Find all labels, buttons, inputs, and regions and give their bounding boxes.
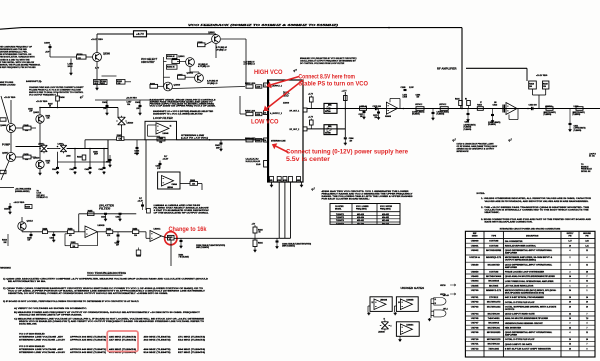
svg-text:418-432: 418-432 bbox=[382, 213, 389, 216]
svg-text:2. THE +10.2V SERIES PASS TRAN: 2. THE +10.2V SERIES PASS TRANSISTOR Q39… bbox=[481, 206, 590, 209]
op-amp LM301A bbox=[150, 231, 162, 242]
svg-text:A_SUPPLY_2: A_SUPPLY_2 bbox=[270, 112, 282, 115]
capacitor C3422 bbox=[30, 234, 33, 236]
svg-text:Stable PS to turn on VCO: Stable PS to turn on VCO bbox=[299, 82, 369, 88]
wire loop net bottom rail bbox=[58, 161, 109, 163]
resistor R3390 bbox=[77, 55, 87, 59]
svg-text:502-515: 502-515 bbox=[382, 223, 389, 225]
resistor R3434 bbox=[56, 96, 60, 101]
pennant flag bandshift bbox=[80, 96, 83, 98]
svg-text:34: 34 bbox=[569, 289, 571, 292]
svg-text:R3439: R3439 bbox=[24, 153, 29, 156]
diode array LM4020 bbox=[118, 117, 126, 125]
svg-text:AMPLIFIER: AMPLIFIER bbox=[505, 333, 518, 336]
svg-text:RTC/BLNT C2: RTC/BLNT C2 bbox=[37, 197, 48, 199]
resistor R3464 bbox=[253, 240, 257, 247]
svg-text:471 MHZ (TLE84T4): 471 MHZ (TLE84T4) bbox=[178, 336, 206, 339]
resistor R3309 bbox=[310, 120, 314, 125]
wire A_SUPPLY_2 feed bbox=[240, 113, 246, 115]
svg-text:11: 11 bbox=[586, 264, 588, 266]
filter FL3101 bbox=[543, 81, 549, 89]
svg-text:RF_OUT_2: RF_OUT_2 bbox=[290, 129, 300, 131]
svg-text:27: 27 bbox=[480, 102, 482, 104]
resistor R3462 bbox=[117, 137, 124, 141]
resistor R3452 circled bbox=[168, 235, 175, 240]
wire opamp2 output bbox=[180, 183, 190, 185]
svg-text:2,16: 2,16 bbox=[585, 241, 588, 243]
svg-text:OF THE MODULATED RF OUTPUT SIG: OF THE MODULATED RF OUTPUT SIGNAL bbox=[154, 213, 210, 215]
pennant flag module bbox=[312, 188, 315, 190]
capacitor C3425 bbox=[109, 159, 112, 161]
svg-text:TLE84T1: TLE84T1 bbox=[336, 213, 344, 216]
svg-text:FOR EACH CLUSTER BOARD MODEL:: FOR EACH CLUSTER BOARD MODEL: bbox=[322, 197, 370, 200]
svg-text:+10.2V REG: +10.2V REG bbox=[36, 101, 48, 103]
svg-text:OUTPUT IMPEDANCE (MMIC): OUTPUT IMPEDANCE (MMIC) bbox=[505, 259, 537, 262]
pins module bottom bbox=[270, 177, 274, 183]
annotation circle around R3452 bbox=[165, 232, 177, 245]
svg-text:B) MEASURE POWER AND FREQUENC: B) MEASURE POWER AND FREQUENCY AT OUTPUT… bbox=[14, 311, 201, 314]
unused op-amp LM3046B box bbox=[396, 297, 418, 312]
wire cap top rail bbox=[95, 99, 150, 101]
svg-text:HEX INVERTER: HEX INVERTER bbox=[505, 327, 522, 329]
filter FL3100 bbox=[529, 81, 537, 89]
svg-text:MC33184: MC33184 bbox=[488, 280, 499, 283]
svg-text:REFERENCE AND THE 2ND: REFERENCE AND THE 2ND bbox=[0, 48, 27, 51]
svg-text:MC74HC273: MC74HC273 bbox=[487, 338, 501, 341]
svg-text:462 MHZ (TLE84T3): 462 MHZ (TLE84T3) bbox=[144, 339, 172, 342]
transistor Q3363 bbox=[212, 35, 221, 44]
resistor R3365 bbox=[172, 60, 180, 64]
capacitor C3432 bbox=[103, 167, 106, 169]
svg-text:U3701: U3701 bbox=[471, 297, 479, 299]
wire loop filter drop bbox=[145, 140, 147, 210]
capacitor C3431 bbox=[89, 167, 92, 169]
wire supply to module pin bbox=[172, 87, 245, 89]
unused gate U3711C bbox=[434, 298, 446, 306]
svg-text:FREQ (MHZ): FREQ (MHZ) bbox=[380, 208, 391, 210]
svg-text:4: 4 bbox=[570, 263, 571, 266]
svg-text:U3708: U3708 bbox=[471, 327, 479, 329]
wire Q3390 collector bbox=[96, 41, 98, 53]
svg-text:C3390: C3390 bbox=[44, 43, 51, 45]
svg-text:QUAD ANALOG MULTIPLEXER/DEMULT: QUAD ANALOG MULTIPLEXER/DEMULTIPLEXER bbox=[505, 275, 556, 278]
svg-text:10: 10 bbox=[586, 302, 588, 304]
svg-text:4: 4 bbox=[570, 331, 571, 334]
op-amp LM3046 loop filter bbox=[156, 123, 169, 134]
svg-text:435-452: 435-452 bbox=[357, 219, 364, 222]
svg-text:C36: C36 bbox=[192, 184, 195, 186]
svg-text:C36: C36 bbox=[25, 159, 28, 161]
svg-text:U3711: U3711 bbox=[471, 344, 479, 346]
svg-text:E REF FREQUENCY; PIN 20 PULSE: E REF FREQUENCY; PIN 20 PULSES bbox=[0, 67, 36, 69]
svg-text:(MM): (MM) bbox=[328, 105, 332, 107]
wire modulation rail bbox=[162, 236, 168, 238]
svg-text:LOOP FILTER: LOOP FILTER bbox=[153, 116, 173, 120]
transistor Q3362 bbox=[195, 74, 204, 83]
svg-text:VCO TROUBLESHOOTING: VCO TROUBLESHOOTING bbox=[87, 271, 127, 275]
resistor stub left edge 2 bbox=[0, 170, 6, 173]
capacitor C3448 bbox=[159, 163, 162, 165]
svg-text:BANDSHIFT HI = VCO 1 (LOWER) S: BANDSHIFT HI = VCO 1 (LOWER) SELECTED bbox=[153, 113, 203, 115]
wire filter drops bbox=[532, 89, 534, 95]
svg-text:12: 12 bbox=[372, 302, 374, 304]
capacitor C3390 bbox=[49, 46, 52, 48]
svg-text:10,11,12,13,14,15: 10,11,12,13,14,15 bbox=[246, 160, 260, 163]
svg-text:4.7V (BE) LO: 4.7V (BE) LO bbox=[197, 65, 210, 68]
annotation red box steering data bbox=[107, 331, 138, 352]
svg-text:7MHZ/5MHZ: 7MHZ/5MHZ bbox=[0, 268, 12, 270]
svg-text:IMPEDANCE: IMPEDANCE bbox=[457, 151, 470, 153]
svg-text:U3703: U3703 bbox=[471, 306, 479, 308]
svg-text:L3276 12: L3276 12 bbox=[439, 104, 446, 106]
svg-text:APPROX 443 MHZ (TLE84T1): APPROX 443 MHZ (TLE84T1) bbox=[70, 351, 106, 354]
svg-text:74HC4051: 74HC4051 bbox=[488, 317, 500, 320]
svg-text:2: 2 bbox=[570, 272, 571, 274]
svg-text:SENSITIVE; DO NOT PROBE). POWE: SENSITIVE; DO NOT PROBE). POWER AT CR330… bbox=[8, 292, 169, 295]
resistor R3458 bbox=[133, 230, 139, 234]
svg-text:11,48: 11,48 bbox=[256, 163, 260, 166]
wire steering line bbox=[85, 139, 117, 141]
svg-text:COLLECTOR IS INTERNALLY CONNEC: COLLECTOR IS INTERNALLY CONNECTED TO THE… bbox=[485, 209, 590, 212]
svg-text:8 BIT SLPT-IN S-OUT SHIFT REGI: 8 BIT SLPT-IN S-OUT SHIFT REGISTER bbox=[505, 348, 552, 350]
svg-text:LOW VCO: LOW VCO bbox=[251, 119, 279, 126]
svg-text:1,17: 1,17 bbox=[568, 241, 571, 243]
svg-text:450 MHZ (TLE84T3): 450 MHZ (TLE84T3) bbox=[144, 336, 172, 339]
svg-text:APPROX 303 MHZ (TLE84T3): APPROX 303 MHZ (TLE84T3) bbox=[70, 336, 106, 339]
svg-text:14: 14 bbox=[569, 313, 571, 316]
ground unused 3 bbox=[399, 336, 401, 338]
capacitor C3271 bbox=[363, 111, 366, 113]
svg-text:434-452: 434-452 bbox=[382, 216, 389, 219]
svg-text:DC CONTROL VOLTAGE FROM LOOP F: DC CONTROL VOLTAGE FROM LOOP FILTER bbox=[300, 63, 345, 65]
svg-text:D/A CONVERTER: D/A CONVERTER bbox=[505, 240, 524, 243]
capacitor C3449 bbox=[52, 234, 55, 236]
svg-text:OV (BE) LO: OV (BE) LO bbox=[207, 83, 218, 85]
svg-text:7: 7 bbox=[587, 276, 588, 278]
svg-text:7: 7 bbox=[587, 314, 588, 316]
svg-text:4: 4 bbox=[587, 322, 588, 325]
svg-text:PUMP: PUMP bbox=[2, 143, 10, 147]
hybrid module 43300 outline bbox=[268, 80, 303, 182]
svg-text:BANDSHIFT (0):: BANDSHIFT (0): bbox=[26, 81, 42, 83]
MMIC U3720A bbox=[324, 103, 337, 113]
resistor R3468 bbox=[190, 182, 198, 186]
svg-text:R3440: R3440 bbox=[24, 124, 29, 127]
svg-text:C3271: C3271 bbox=[359, 114, 364, 116]
capacitor C3391 bbox=[94, 80, 101, 85]
wire stub left bbox=[0, 187, 14, 189]
capacitor C3263 bbox=[276, 240, 279, 242]
svg-text:+10.2V REG: +10.2V REG bbox=[536, 75, 548, 77]
svg-text:Q3412: Q3412 bbox=[27, 220, 34, 223]
resistor R3450 bbox=[68, 230, 75, 234]
op-amp LM3046 second box bbox=[158, 172, 180, 189]
capacitor C3428 bbox=[117, 234, 120, 236]
svg-text:2: 2 bbox=[570, 323, 571, 325]
svg-text:PHASE LOCKED LOOP SYNTHESIZER: PHASE LOCKED LOOP SYNTHESIZER bbox=[505, 271, 545, 274]
svg-text:LM301A: LM301A bbox=[154, 228, 162, 231]
svg-text:C3111: C3111 bbox=[574, 126, 579, 128]
svg-text:C36: C36 bbox=[25, 130, 28, 132]
wire rail 107.5 bbox=[40, 107, 118, 109]
svg-text:C36: C36 bbox=[47, 163, 50, 165]
svg-text:2: 2 bbox=[570, 257, 571, 259]
resistor R3459 bbox=[136, 250, 141, 255]
svg-text:+4.7V: +4.7V bbox=[308, 93, 314, 96]
svg-text:11: 11 bbox=[586, 281, 588, 283]
svg-text:.01UF: .01UF bbox=[94, 83, 98, 85]
svg-text:RF_OUT_1: RF_OUT_1 bbox=[290, 110, 300, 112]
svg-text:C3391: C3391 bbox=[94, 81, 99, 83]
svg-text:.1UF: .1UF bbox=[103, 108, 106, 110]
svg-text:3) IF BOARD IS NOT LOCKED, PE: 3) IF BOARD IS NOT LOCKED, PERFORM FOLLO… bbox=[3, 300, 139, 303]
transistor Q3361 bbox=[186, 58, 195, 67]
capacitor C3453 bbox=[220, 142, 223, 144]
svg-text:LM4038: LM4038 bbox=[378, 331, 385, 334]
ground module right bbox=[301, 182, 303, 184]
svg-text:16: 16 bbox=[569, 318, 571, 320]
svg-text:U3710: U3710 bbox=[471, 339, 479, 341]
feedback loop LM3046 bbox=[147, 125, 149, 136]
svg-text:C36: C36 bbox=[47, 118, 50, 120]
svg-text:U3940: U3940 bbox=[471, 263, 479, 266]
resistor R3442 bbox=[82, 155, 86, 160]
resistor R3367 bbox=[178, 75, 186, 79]
svg-text:VALUES ARE IN PICOFARADS, AND: VALUES ARE IN PICOFARADS, AND INDUCTOR V… bbox=[485, 200, 590, 203]
svg-text:514 MHZ (TLE84T3): 514 MHZ (TLE84T3) bbox=[144, 351, 172, 354]
svg-text:3. EDGE CONNECTORS P101 AND P1: 3. EDGE CONNECTORS P101 AND P102 ARE PAR… bbox=[481, 218, 592, 221]
svg-text:AT J31: AT J31 bbox=[589, 155, 595, 158]
wire R3452 drop bbox=[170, 240, 172, 266]
svg-text:DETAIL SH: DETAIL SH bbox=[581, 170, 591, 173]
resistor R3360 bbox=[167, 55, 178, 59]
svg-text:Q3361: Q3361 bbox=[178, 56, 185, 58]
svg-text:+MT+1: +MT+1 bbox=[443, 308, 448, 310]
capacitor C3427 bbox=[74, 167, 77, 169]
pin 23 A_SUPPLY_2 bbox=[264, 111, 268, 115]
svg-text:TLE84T2: TLE84T2 bbox=[336, 216, 344, 219]
resistor R3463 bbox=[253, 227, 257, 233]
svg-text:R3138: R3138 bbox=[529, 84, 534, 86]
svg-text:Q3408: Q3408 bbox=[0, 124, 7, 127]
svg-text:514 MHZ (TLE84T4): 514 MHZ (TLE84T4) bbox=[178, 339, 206, 342]
svg-text:OCTAL D-TYPE FLIP-FLOP: OCTAL D-TYPE FLIP-FLOP bbox=[505, 301, 536, 304]
power +8.7V box bbox=[134, 31, 147, 37]
capacitor C3435 bbox=[136, 147, 139, 149]
svg-text:VCO FEEDBACK (303MHZ TO 431MHZ: VCO FEEDBACK (303MHZ TO 431MHZ & 438MHZ … bbox=[188, 24, 339, 27]
svg-text:MOD1: MOD1 bbox=[277, 180, 281, 182]
wire splatter input rail bbox=[22, 231, 43, 233]
capacitor C3438 bbox=[139, 105, 142, 107]
svg-text:R3367: R3367 bbox=[178, 74, 183, 76]
svg-text:C36: C36 bbox=[119, 139, 122, 141]
resistor R3456 bbox=[106, 230, 113, 234]
svg-text:FILTER: FILTER bbox=[99, 207, 110, 211]
wire Q3390 base rail bbox=[50, 56, 77, 58]
svg-text:HEATSINK.: HEATSINK. bbox=[485, 211, 501, 214]
resistor R3449 bbox=[43, 230, 48, 234]
svg-text:BE APPROXIMATELY 80 MA.: BE APPROXIMATELY 80 MA. bbox=[8, 280, 47, 283]
wire Q3363 to supply bbox=[215, 43, 217, 58]
svg-text:F THE DIGITAL. WITH VCO BELOW: F THE DIGITAL. WITH VCO BELOW bbox=[0, 61, 34, 64]
svg-text:C) MEASURE STEERING LINE VOLT: C) MEASURE STEERING LINE VOLTAGE AT U340… bbox=[14, 318, 205, 321]
svg-text:LOW POWER DUAL OPERATIONAL AMP: LOW POWER DUAL OPERATIONAL AMPLIFIER bbox=[505, 280, 555, 283]
svg-text:5.5v is center: 5.5v is center bbox=[286, 157, 331, 163]
transistor Q3410 bbox=[36, 160, 44, 168]
svg-text:VCO 1 OF 43300 OR UPPER FREQ V: VCO 1 OF 43300 OR UPPER FREQ VCO 2 OF 43… bbox=[150, 105, 217, 108]
varactor L3403C bbox=[60, 145, 66, 151]
svg-text:MC74HC273: MC74HC273 bbox=[487, 301, 501, 304]
svg-text:STEERING LINE: STEERING LINE bbox=[271, 140, 286, 142]
svg-text:U3950: U3950 bbox=[471, 272, 479, 274]
svg-text:TYPE: TYPE bbox=[491, 235, 496, 237]
ground unused 2 bbox=[394, 305, 396, 307]
svg-text:LM4020: LM4020 bbox=[127, 122, 134, 125]
svg-text:U3403: U3403 bbox=[471, 275, 479, 278]
wire RF output 2 bbox=[307, 128, 345, 130]
svg-text:7: 7 bbox=[587, 344, 588, 346]
svg-text:U3720B: U3720B bbox=[325, 132, 332, 134]
svg-text:10: 10 bbox=[586, 339, 588, 341]
svg-text:2.7V (BE) LO: 2.7V (BE) LO bbox=[243, 64, 256, 66]
svg-text:418-434: 418-434 bbox=[357, 216, 365, 219]
svg-text:QUAD 2-INPUT NAND GATE: QUAD 2-INPUT NAND GATE bbox=[505, 313, 536, 316]
capacitor C3436 bbox=[106, 105, 109, 107]
svg-text:1 UF: 1 UF bbox=[157, 168, 160, 170]
svg-text:MODEL: MODEL bbox=[335, 208, 342, 210]
wire loop net verticals bbox=[57, 152, 59, 167]
resistor R3130 bbox=[459, 101, 463, 106]
wire +8.7V feed bbox=[97, 33, 134, 35]
svg-text:10: 10 bbox=[569, 245, 571, 247]
svg-text:14: 14 bbox=[569, 326, 571, 329]
svg-text:U3900: U3900 bbox=[471, 241, 479, 243]
svg-text:13: 13 bbox=[435, 303, 437, 305]
capacitor C3417 bbox=[119, 212, 122, 214]
svg-text:2) Q3360 THRU Q3363 COMPRISE: 2) Q3360 THRU Q3363 COMPRISE BANDSHIFT C… bbox=[3, 287, 204, 290]
svg-text:R3131: R3131 bbox=[477, 105, 482, 107]
svg-text:R3139: R3139 bbox=[543, 84, 548, 86]
svg-text:C3091: C3091 bbox=[465, 122, 470, 124]
svg-text:SHOULD BE WITHIN LIMITS OF UPP: SHOULD BE WITHIN LIMITS OF UPPER RANGE. bbox=[19, 314, 83, 317]
resistor R3368 bbox=[198, 43, 206, 47]
svg-text:1UF: 1UF bbox=[28, 240, 31, 242]
capacitor C3392 bbox=[101, 80, 107, 85]
svg-text:Q3360: Q3360 bbox=[174, 84, 181, 86]
svg-text:C3438: C3438 bbox=[135, 101, 140, 104]
capacitor C3420B bbox=[9, 206, 12, 208]
wire Q3412 emitter bbox=[21, 230, 23, 232]
resistor R3448 bbox=[25, 205, 32, 209]
svg-text:13: 13 bbox=[384, 319, 386, 321]
svg-text:+4.7V: +4.7V bbox=[308, 116, 314, 119]
resistor R3460 bbox=[157, 137, 165, 141]
svg-text:L3467: L3467 bbox=[127, 101, 132, 104]
wire pump output rail bbox=[16, 146, 41, 148]
svg-text:43300: 43300 bbox=[283, 102, 290, 105]
svg-text:U3710: U3710 bbox=[440, 285, 446, 287]
svg-text:100: 100 bbox=[494, 102, 497, 104]
svg-text:OV (BE) LO: OV (BE) LO bbox=[216, 50, 227, 52]
svg-text:74HC165: 74HC165 bbox=[488, 347, 499, 350]
svg-text:100: 100 bbox=[417, 97, 420, 99]
svg-text:U3704: U3704 bbox=[471, 313, 479, 316]
svg-text:1) Q3390 AND ASSOCIATED CIRCU: 1) Q3390 AND ASSOCIATED CIRCUITRY COMPRI… bbox=[3, 277, 209, 280]
svg-text:LM301B: LM301B bbox=[98, 225, 106, 227]
wire Q3361 emitter to Q3362 bbox=[189, 66, 191, 72]
svg-text:MULTIPLEXED ADDRESS/DATA BUS): MULTIPLEXED ADDRESS/DATA BUS) bbox=[505, 291, 545, 294]
svg-text:TLE84T4: TLE84T4 bbox=[336, 222, 345, 225]
svg-text:REGULATOR/POWER CONTROL: REGULATOR/POWER CONTROL bbox=[505, 244, 536, 247]
svg-text:4: 4 bbox=[570, 249, 571, 252]
wire select bases bbox=[164, 61, 167, 63]
svg-text:CIRCUITRY: CIRCUITRY bbox=[141, 61, 155, 64]
svg-text:14: 14 bbox=[569, 343, 571, 346]
table IC power and ground bbox=[465, 231, 595, 357]
svg-text:4: 4 bbox=[587, 256, 588, 259]
wire pump interconnect bbox=[16, 127, 24, 129]
svg-text:U3712: U3712 bbox=[471, 348, 479, 350]
unused gate U3711D bbox=[434, 310, 446, 317]
svg-text:+8.7V: +8.7V bbox=[136, 32, 144, 36]
svg-text:DIVIDER INTERNALLY. PER-: DIVIDER INTERNALLY. PER- bbox=[0, 51, 28, 54]
wire feedback drop to RF amplifier bbox=[461, 28, 463, 109]
svg-text:CKED IS 2 AND TO; WITH THE: CKED IS 2 AND TO; WITH THE bbox=[0, 58, 30, 61]
svg-text:+10.2V REG: +10.2V REG bbox=[14, 202, 25, 204]
svg-text:(+4.3 TO +7.5 VDC): (+4.3 TO +7.5 VDC) bbox=[181, 137, 209, 140]
svg-text:MC74HC4066: MC74HC4066 bbox=[486, 275, 501, 278]
resistor R3364 bbox=[150, 84, 158, 88]
resistor R3129 bbox=[467, 101, 471, 106]
transistor Q3412 bbox=[18, 222, 26, 230]
pennant flag note B bbox=[509, 139, 512, 141]
svg-text:R3131: R3131 bbox=[455, 99, 460, 101]
capacitor C3426B bbox=[104, 212, 107, 214]
svg-text:20: 20 bbox=[569, 302, 571, 304]
wire Q3390 emitter bbox=[96, 62, 98, 80]
svg-text:APPROX 440 MHZ (TLE84T1): APPROX 440 MHZ (TLE84T1) bbox=[70, 348, 106, 351]
svg-text:VCO 1 OF 43300 ENABLED: VCO 1 OF 43300 ENABLED bbox=[19, 332, 45, 335]
transistor Q3360 bbox=[164, 82, 173, 91]
svg-text:U3902: U3902 bbox=[471, 250, 479, 252]
svg-text:HE COMPARES FREQUENCY OF: HE COMPARES FREQUENCY OF bbox=[0, 46, 33, 49]
junction dots pump bbox=[39, 146, 41, 148]
pin 24 STEERING LINE bbox=[264, 138, 268, 142]
svg-text:DESIG: DESIG bbox=[472, 236, 478, 238]
svg-text:MHW2(1-171: MHW2(1-171 bbox=[486, 257, 501, 259]
svg-text:CUSTOM: CUSTOM bbox=[489, 272, 499, 274]
svg-text:Change to 16k: Change to 16k bbox=[169, 227, 208, 233]
annotation arrow to A_SUPPLY_1 bbox=[271, 77, 299, 85]
svg-text:STEERING LINE VOLTAGE +10.5V: STEERING LINE VOLTAGE +10.5V bbox=[19, 339, 66, 342]
resistor R3308 bbox=[310, 97, 314, 102]
svg-text:VCO 2 OF 43300 ENABLED: VCO 2 OF 43300 ENABLED bbox=[19, 345, 45, 348]
svg-text:64K X 8-BIT EPROM, PROGRAMMED: 64K X 8-BIT EPROM, PROGRAMMED bbox=[505, 296, 545, 299]
svg-text:L3220: L3220 bbox=[256, 86, 260, 88]
svg-text:14: 14 bbox=[586, 296, 588, 299]
svg-text:FREQ (MHZ): FREQ (MHZ) bbox=[356, 208, 367, 210]
pennant flag enabled vco note bbox=[294, 69, 297, 71]
transistor Q3407 bbox=[7, 153, 16, 162]
svg-text:Q3362: Q3362 bbox=[187, 73, 194, 75]
svg-text:435 MHZ (TLE84T4): 435 MHZ (TLE84T4) bbox=[109, 336, 137, 339]
svg-text:454-502: 454-502 bbox=[357, 222, 364, 225]
wire after opamp bbox=[403, 108, 405, 110]
svg-text:10: 10 bbox=[398, 302, 400, 304]
annotation arrow to A_SUPPLY_2 bbox=[267, 80, 303, 108]
svg-text:100: 100 bbox=[73, 246, 76, 248]
feedback resistor R3451 bbox=[97, 232, 99, 246]
